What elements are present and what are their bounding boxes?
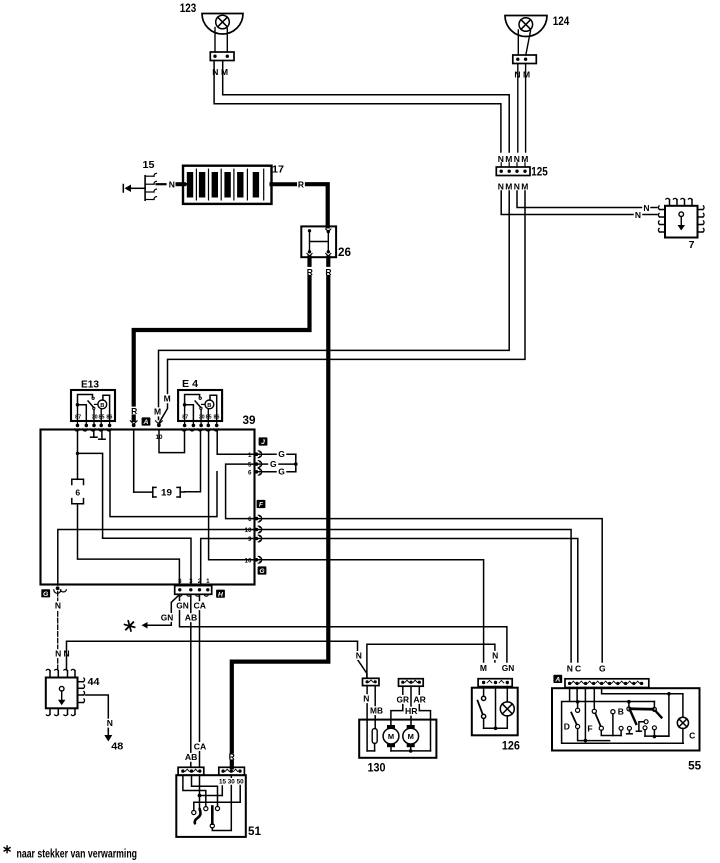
label N (lower wire to 7)	[634, 210, 641, 220]
wire 124-M	[525, 64, 527, 153]
svg-text:30: 30	[199, 415, 205, 421]
svg-text:G: G	[259, 568, 265, 575]
wire 15 stub (51)	[221, 786, 223, 796]
switch F (55)	[587, 688, 603, 734]
wire N drop to 130	[358, 641, 367, 677]
connector 44 prongs	[46, 669, 84, 715]
wire E13-87 branch to AB	[78, 453, 192, 585]
svg-text:N: N	[567, 664, 573, 674]
svg-text:R: R	[131, 406, 137, 416]
wire lamp C bottom	[682, 729, 684, 744]
svg-text:J: J	[261, 439, 265, 446]
stub E13-85	[99, 430, 105, 440]
thick wire R right (26 to 51)	[232, 258, 328, 768]
label E13	[81, 379, 99, 391]
svg-text:N: N	[55, 601, 61, 611]
label G (J6)	[278, 467, 285, 477]
wire 51 pin1	[183, 775, 208, 811]
wire 30 (51)	[210, 775, 231, 830]
component 26 bridge	[310, 241, 329, 243]
junction pin 10 of 39	[156, 421, 163, 427]
wire N bus to 126	[367, 644, 495, 677]
svg-text:1: 1	[248, 452, 252, 459]
svg-text:N: N	[169, 179, 175, 189]
wire motor bottoms rail	[391, 747, 431, 753]
connector 44 ground symbol	[58, 686, 65, 705]
rail in 126	[484, 727, 508, 731]
wire G loop (55)	[602, 688, 683, 718]
wire C (55 inside)	[576, 688, 580, 709]
label N (130 drop)	[356, 650, 362, 660]
unit 126 box	[472, 688, 518, 736]
label 51	[248, 826, 262, 838]
svg-text:CA: CA	[194, 741, 207, 751]
wire AB to 51	[190, 594, 192, 767]
svg-text:A: A	[143, 419, 149, 426]
svg-text:6: 6	[248, 469, 252, 476]
component 26 right contact	[327, 230, 330, 254]
wire fuse 17 to R	[272, 182, 296, 186]
wire N (39 to 44)	[57, 592, 59, 671]
wire N (55 inside)	[569, 688, 571, 702]
motor M left (130)	[383, 725, 399, 747]
label 7	[689, 239, 695, 251]
boxed label A (55)	[553, 675, 562, 684]
wire M to 126	[258, 560, 483, 662]
relay E13	[71, 390, 115, 431]
label 15	[143, 159, 155, 171]
lamp 124 wires to connector	[518, 30, 530, 55]
wire AR into 130	[419, 686, 430, 751]
wire CA to C pin	[201, 539, 255, 586]
wire 125-pin2 M to pin10	[159, 191, 510, 420]
svg-text:17: 17	[272, 164, 284, 176]
svg-text:F: F	[587, 724, 592, 734]
resistor in 130	[367, 729, 377, 751]
label AB (above 51)	[185, 752, 198, 762]
labels N M (lamp 123)	[212, 67, 228, 77]
label N (below 39)	[55, 601, 61, 611]
B lower contacts (55)	[619, 720, 656, 736]
svg-text:55: 55	[688, 761, 702, 773]
svg-text:M: M	[505, 182, 512, 192]
pin F6 of 39	[248, 515, 262, 523]
wire N in 126	[495, 687, 497, 729]
component 15 connector body	[145, 173, 156, 200]
label HR (130)	[405, 706, 418, 716]
wire J6-G	[258, 469, 296, 472]
wire N to 7 hook1	[651, 207, 657, 209]
svg-text:B: B	[618, 707, 624, 717]
wire 125-pin4 M to pin10	[159, 191, 525, 423]
svg-text:A: A	[554, 677, 560, 684]
label N (upper wire to 7)	[643, 203, 650, 213]
labels 8 3 2 1 (H pins)	[178, 578, 210, 585]
boxed label F	[257, 500, 266, 509]
wire 125-pin3 N to 7	[517, 191, 642, 208]
svg-text:8: 8	[178, 578, 182, 585]
svg-text:48: 48	[111, 741, 123, 753]
svg-text:6: 6	[75, 487, 80, 497]
svg-text:7: 7	[689, 239, 695, 251]
svg-text:GN: GN	[161, 612, 174, 622]
svg-text:E13: E13	[81, 379, 99, 391]
wire 125-pin1 N to 7	[501, 191, 633, 215]
label R (fuse output)	[298, 180, 304, 190]
svg-text:N: N	[498, 182, 504, 192]
svg-text:3: 3	[189, 578, 193, 585]
label 17	[272, 164, 284, 176]
label 26	[338, 247, 351, 259]
wire N into 130	[366, 686, 368, 751]
asterisk (heater note)	[125, 621, 135, 631]
svg-text:86: 86	[106, 415, 112, 421]
unit 39 box	[41, 430, 255, 585]
label R (at junction A)	[131, 406, 137, 416]
svg-text:M: M	[523, 70, 530, 80]
wire 50 (51)	[192, 786, 241, 815]
connector 51-left	[178, 767, 204, 775]
label GN (H pin 8)	[176, 600, 189, 610]
svg-text:123: 123	[180, 3, 197, 15]
svg-text:GN: GN	[502, 663, 515, 673]
label CA (above 51)	[193, 741, 206, 751]
connector H of 39	[175, 586, 212, 597]
boxed label G (right)	[258, 566, 267, 575]
svg-text:HR: HR	[405, 706, 418, 716]
wire G bracket vertical	[295, 454, 297, 472]
label 123	[180, 3, 197, 15]
lamp 123 wires to connector	[215, 28, 227, 53]
wire F lower (55)	[601, 710, 615, 736]
svg-text:C: C	[689, 731, 695, 741]
pin J5 of 39	[248, 461, 262, 469]
svg-text:E 4: E 4	[182, 378, 198, 390]
svg-text:39: 39	[243, 415, 256, 427]
wire 19 right lead	[180, 491, 184, 493]
label GR (130)	[396, 694, 409, 704]
wire G to 55	[258, 519, 602, 662]
svg-text:G: G	[599, 664, 606, 674]
connector 125	[496, 163, 530, 176]
connector 126	[478, 679, 512, 687]
svg-text:1: 1	[206, 578, 210, 585]
label G (J5)	[270, 459, 277, 469]
labels 15 30 50 (51)	[219, 778, 245, 785]
svg-text:AB: AB	[185, 613, 198, 623]
svg-text:9: 9	[248, 536, 252, 543]
component 26 pin arrows	[307, 229, 331, 256]
svg-text:GN: GN	[176, 600, 189, 610]
wire J1-G	[258, 454, 296, 459]
svg-text:N: N	[107, 718, 113, 728]
component 26 left contact	[308, 229, 311, 253]
svg-text:M: M	[388, 732, 394, 741]
connector 44 box	[46, 678, 78, 709]
svg-text:N: N	[492, 650, 498, 660]
svg-text:R: R	[298, 180, 304, 190]
connector strip (55)	[565, 679, 649, 688]
component 15 ground arrow	[123, 185, 145, 193]
svg-text:GR: GR	[397, 694, 410, 704]
svg-text:M: M	[164, 394, 171, 404]
svg-text:19: 19	[161, 487, 172, 498]
footnote text	[17, 847, 138, 861]
svg-text:N: N	[356, 650, 362, 660]
wire 51 AB to dot	[200, 795, 223, 797]
svg-text:2: 2	[198, 578, 202, 585]
footnote asterisk	[4, 846, 10, 853]
boxed label G (bottom-left)	[41, 589, 50, 598]
wire pin10 to E4-87	[159, 430, 185, 453]
pin F10 of 39	[245, 526, 262, 534]
unit 55 outer box	[552, 688, 700, 750]
wire B rail (55)	[613, 735, 669, 738]
wire E4-85 to M pin	[209, 430, 255, 560]
pin J6 of 39	[248, 468, 262, 476]
label 48	[111, 741, 123, 753]
wire 51 CA	[198, 775, 202, 810]
wire 124-N	[517, 64, 519, 153]
component 7 ground symbol	[678, 212, 686, 231]
wire 123-M	[223, 61, 510, 153]
component 19	[153, 487, 180, 498]
svg-text:G: G	[270, 459, 277, 469]
wire N (44 to bus)	[67, 641, 358, 670]
component 7 prongs	[658, 198, 704, 232]
svg-text:G: G	[278, 467, 285, 477]
svg-text:126: 126	[502, 740, 520, 752]
svg-text:M: M	[521, 182, 528, 192]
lamp 124 (dome)	[505, 16, 547, 37]
svg-text:AB: AB	[185, 752, 198, 762]
svg-text:10: 10	[245, 527, 253, 534]
component 6	[72, 479, 84, 504]
wire N net inside 39	[58, 530, 255, 586]
label C (55)	[575, 664, 581, 674]
svg-text:G: G	[43, 591, 49, 598]
svg-text:44: 44	[88, 676, 100, 688]
svg-text:125: 125	[531, 167, 548, 179]
wire C to 55	[258, 539, 578, 663]
label N (126 drop)	[492, 650, 498, 660]
svg-text:130: 130	[368, 763, 386, 775]
svg-text:15: 15	[143, 159, 155, 171]
svg-text:10: 10	[245, 557, 253, 564]
svg-text:N: N	[635, 210, 641, 220]
connector 130-right	[399, 679, 424, 687]
svg-text:86: 86	[214, 415, 220, 421]
boxed label J	[259, 437, 268, 446]
wire 19 left lead to A junction	[134, 430, 153, 493]
boxed label H	[216, 590, 225, 599]
label 44	[88, 676, 100, 688]
svg-text:5: 5	[248, 462, 252, 469]
component 7 box	[665, 206, 698, 238]
svg-text:M: M	[480, 663, 487, 673]
labels N M (lamp 124)	[514, 70, 530, 80]
wire 51 AB	[192, 775, 220, 810]
label 124	[553, 16, 570, 28]
svg-text:85: 85	[99, 415, 105, 421]
label N N (above 44)	[55, 649, 70, 659]
stub E13-30	[91, 430, 97, 438]
wire GN to 126	[180, 594, 507, 662]
motor M right (130)	[403, 725, 419, 747]
component 6 wire lower (GN net)	[78, 504, 180, 585]
label GN (126)	[501, 663, 514, 673]
label N (55)	[567, 664, 573, 674]
component 6 wire upper	[77, 453, 79, 479]
svg-text:87: 87	[182, 415, 188, 421]
wire J5-G	[258, 462, 297, 466]
wire N to 55	[258, 530, 571, 663]
label M (lower)	[154, 407, 161, 417]
svg-text:15: 15	[219, 779, 227, 786]
label N (ground 48 wire)	[107, 718, 113, 728]
label 55	[688, 761, 702, 773]
unit 55 inner frame	[562, 702, 684, 744]
wire G down to B rail	[653, 694, 669, 739]
label R (above 51)	[229, 752, 235, 762]
svg-text:N: N	[514, 182, 520, 192]
svg-text:124: 124	[553, 16, 570, 28]
label N (fuse input)	[169, 179, 175, 189]
label AB (below H)	[184, 613, 197, 623]
lamp C (55)	[677, 717, 688, 728]
label 39	[243, 415, 256, 427]
wire N to fuse 17	[178, 182, 185, 186]
wire GN to heater (asterisk)	[142, 594, 180, 628]
hook contact (51)	[195, 809, 201, 823]
wire E4-86 to J1	[217, 430, 254, 455]
svg-text:CA: CA	[194, 601, 207, 611]
label CA (below H)	[193, 601, 206, 611]
switch in 126	[478, 687, 486, 729]
wire J5 to F6	[226, 464, 255, 518]
svg-text:D: D	[564, 722, 570, 732]
label 10 (pin 10 of 39)	[156, 434, 164, 441]
lamp 124 connector	[513, 55, 537, 64]
svg-text:85: 85	[206, 415, 212, 421]
svg-text:N: N	[643, 203, 649, 213]
svg-text:50: 50	[237, 779, 245, 786]
svg-text:N: N	[55, 649, 61, 659]
boxed label A (at 39 pin 10)	[142, 417, 151, 426]
wire D lower (55)	[578, 729, 610, 743]
svg-text:M: M	[154, 407, 161, 417]
connector 51-right	[219, 767, 245, 775]
svg-text:AR: AR	[413, 694, 426, 704]
unit 51 box	[176, 775, 246, 837]
label 125	[531, 167, 548, 179]
label C (lamp 55)	[689, 731, 695, 741]
wire 15 to N	[157, 183, 166, 185]
unit 130 box	[359, 720, 436, 758]
wire 123-N	[214, 61, 501, 153]
label GN (to heater)	[160, 612, 173, 622]
wire pin3 down (55)	[584, 688, 586, 741]
lamp 123 connector	[210, 52, 234, 61]
switch D (55)	[564, 708, 580, 731]
label AR (130)	[413, 694, 426, 704]
relay E4	[178, 390, 222, 431]
pin G10 of 39	[245, 556, 262, 564]
svg-text:6: 6	[248, 516, 252, 523]
wire HR into 130	[410, 686, 412, 725]
label N (130)	[363, 694, 369, 704]
B contacts (55)	[618, 700, 662, 724]
svg-text:26: 26	[338, 247, 351, 259]
svg-text:R: R	[229, 752, 235, 762]
thick wire R left (26 to relay area)	[134, 258, 310, 421]
wire MB into 130	[374, 686, 376, 728]
fuse block 17	[183, 166, 272, 204]
svg-text:M: M	[408, 732, 414, 741]
pin J1 of 39	[248, 451, 262, 459]
svg-text:G: G	[278, 449, 285, 459]
thick bar contact (51)	[211, 807, 214, 824]
wire GR into 130	[391, 686, 403, 725]
pin G (39 bottom-left)	[54, 586, 67, 593]
lamp 123 (dome)	[202, 14, 243, 35]
svg-text:30: 30	[228, 779, 236, 786]
label R (26 right out)	[325, 267, 331, 277]
svg-text:C: C	[575, 664, 581, 674]
wire E4-30 to 19	[185, 430, 201, 492]
labels NMNM above 125	[498, 154, 529, 164]
thick wire R to 26	[307, 184, 328, 226]
ground 48 arrow	[104, 729, 112, 742]
label G (55)	[599, 664, 606, 674]
wire CA to 51	[199, 594, 201, 767]
label 130	[368, 763, 386, 775]
svg-text:30: 30	[92, 415, 98, 421]
label E4	[182, 378, 198, 390]
label M (126)	[480, 663, 487, 673]
label 126	[502, 740, 520, 752]
wire 44 to ground 48	[86, 695, 109, 731]
svg-text:N: N	[212, 67, 218, 77]
label MB (130)	[370, 706, 384, 716]
component 26 box	[301, 226, 336, 257]
pin F9 of 39	[248, 535, 262, 543]
svg-text:87: 87	[75, 415, 81, 421]
lamp in 126	[500, 687, 514, 729]
label R (26 left out)	[307, 267, 313, 277]
svg-text:N: N	[363, 694, 369, 704]
wire E13-86 G net	[110, 430, 217, 517]
junction arrow R into 39	[130, 421, 137, 427]
wire E13-87 down	[76, 430, 79, 456]
svg-text:10: 10	[156, 434, 164, 441]
svg-text:MB: MB	[370, 706, 383, 716]
label G (J1)	[278, 449, 285, 459]
connector 130-left	[363, 678, 380, 685]
wire N to 7 hook2	[643, 214, 657, 216]
label M (upper)	[164, 394, 171, 404]
svg-text:51: 51	[248, 826, 262, 838]
svg-text:naar stekker van verwarming: naar stekker van verwarming	[17, 847, 138, 861]
labels NMNM below 125	[498, 182, 529, 192]
